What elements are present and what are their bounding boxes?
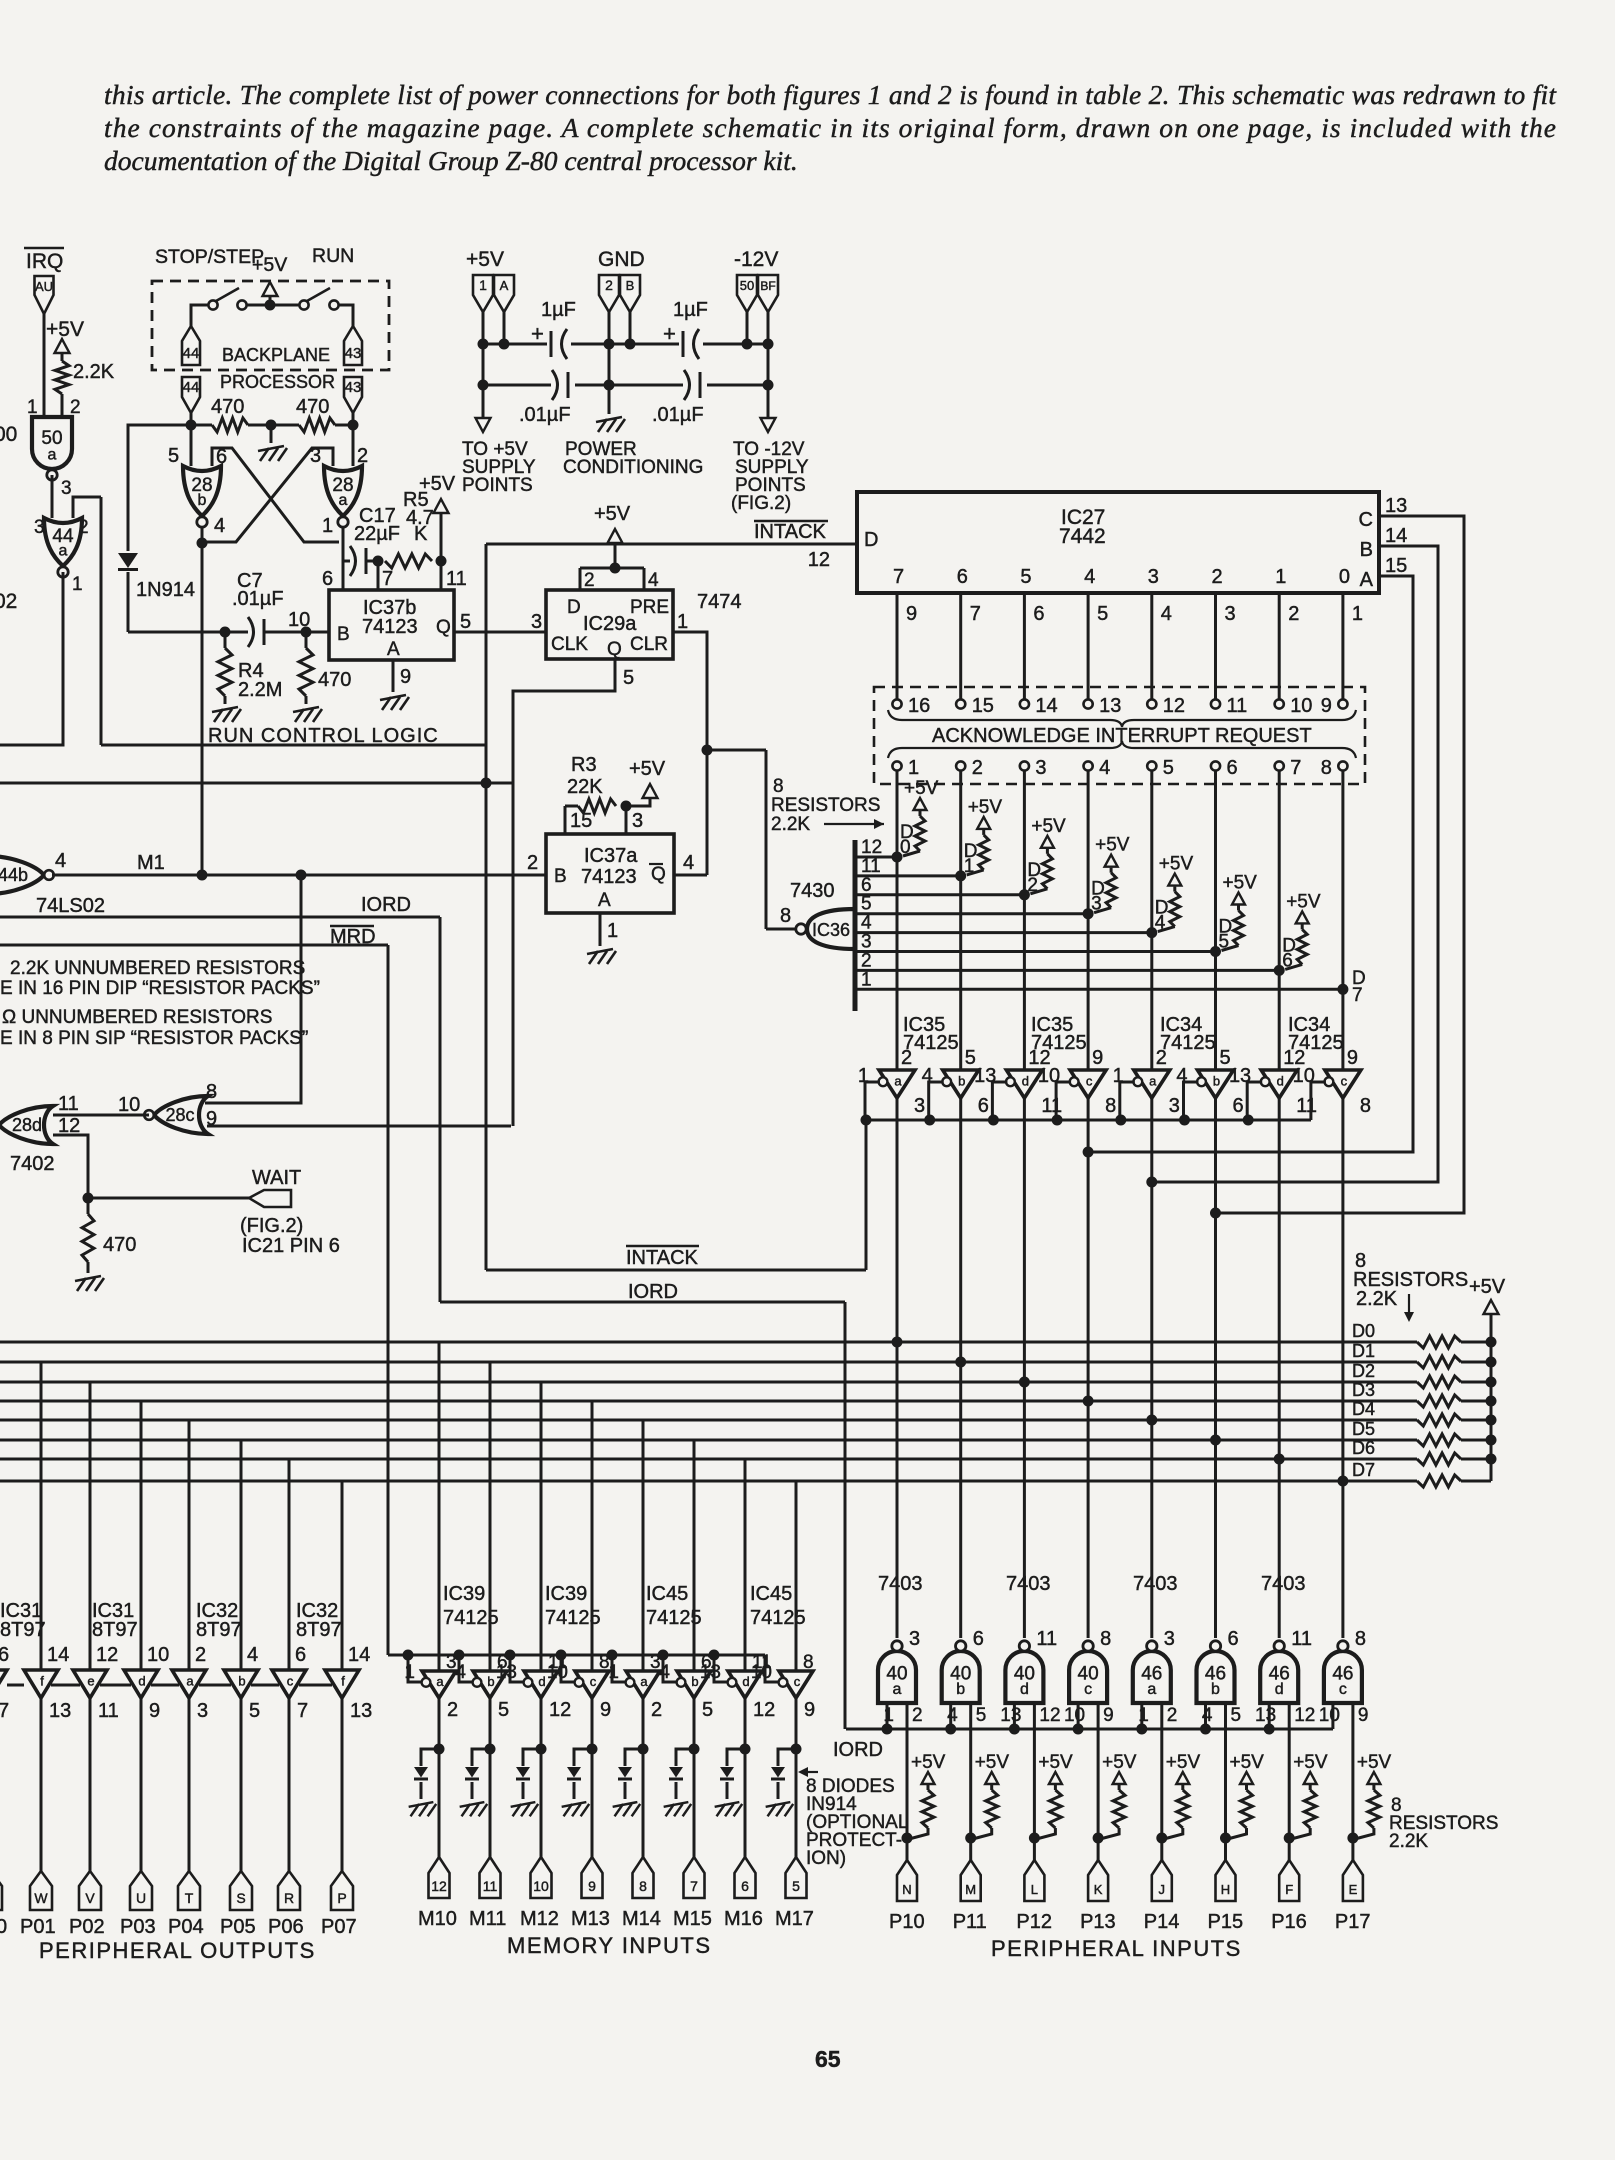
MRD top run <box>0 944 388 947</box>
svg-text:7430: 7430 <box>790 880 835 902</box>
svg-text:INTACK: INTACK <box>626 1247 699 1269</box>
svg-text:3: 3 <box>1148 566 1159 588</box>
svg-text:a: a <box>186 1673 194 1688</box>
svg-text:.01µF: .01µF <box>232 588 284 610</box>
svg-text:9: 9 <box>588 1878 596 1894</box>
junction diode M17 <box>791 1744 802 1755</box>
svg-text:+5V: +5V <box>975 1752 1010 1773</box>
connector WAIT <box>249 1190 291 1207</box>
diode to ground M13 <box>573 1782 576 1799</box>
junction memory enable 4 <box>607 1650 618 1661</box>
svg-text:470: 470 <box>103 1234 136 1256</box>
svg-text:2: 2 <box>912 1705 923 1726</box>
svg-text:RESISTORS: RESISTORS <box>771 795 880 816</box>
svg-text:44: 44 <box>183 345 200 362</box>
svg-text:8: 8 <box>1321 757 1332 779</box>
wire resistor to 50a pin2 <box>61 394 64 417</box>
pullup bend P13 <box>1100 1828 1119 1839</box>
junction enable rail 4 <box>1052 1115 1063 1126</box>
IORD horizontal run <box>440 1301 845 1304</box>
svg-text:8T97: 8T97 <box>296 1619 342 1641</box>
junction enable rail 7 <box>1243 1115 1254 1126</box>
ack request circle 5 <box>1147 761 1156 770</box>
wire +5V to R5 node <box>440 512 443 561</box>
power bus lower c <box>707 384 768 387</box>
svg-text:D: D <box>864 529 878 551</box>
diode 1N914 M17 <box>771 1767 785 1779</box>
gate 28d (7402 NOR) <box>0 1106 53 1144</box>
wire P02 buffer to plug <box>89 1698 92 1871</box>
data bus row D6 <box>0 1458 1417 1461</box>
svg-text:K: K <box>414 523 428 545</box>
junction IORD rail gate 4 <box>1073 1724 1084 1735</box>
IC36 input stub pin 6 <box>855 893 1024 896</box>
buffer 8T97 cut at left edge <box>0 1670 7 1698</box>
svg-text:6: 6 <box>1227 757 1238 779</box>
junction IORD rail gate 7 <box>1264 1724 1275 1735</box>
connector A (+5V) <box>494 275 514 312</box>
data bus row D4 <box>0 1419 1417 1422</box>
gate 46c (7403 NAND) <box>1324 1641 1362 1703</box>
resistor 2.2K bus D0 <box>1417 1336 1461 1348</box>
svg-text:a: a <box>1149 1073 1157 1088</box>
switch RUN contact right <box>329 300 338 309</box>
svg-text:74123: 74123 <box>581 866 637 888</box>
svg-text:2: 2 <box>1167 1705 1178 1726</box>
svg-text:12: 12 <box>861 837 882 858</box>
gate IC36 7430 body <box>807 909 855 949</box>
svg-text:2: 2 <box>1212 566 1223 588</box>
dashed interrupt connector box <box>874 687 1365 784</box>
wire +5V arrow to resistor <box>61 353 64 361</box>
svg-text:9: 9 <box>1347 1047 1358 1069</box>
svg-text:14: 14 <box>1385 525 1407 547</box>
resistor 470 (left) <box>212 418 248 432</box>
connector BF (-12V) <box>758 275 778 312</box>
resistor 2.2K P13 <box>1113 1790 1125 1828</box>
junction enable rail 5 <box>1115 1115 1126 1126</box>
svg-text:d: d <box>1022 1073 1029 1088</box>
svg-text:MEMORY INPUTS: MEMORY INPUTS <box>507 1933 712 1958</box>
connector J (P14) <box>1152 1860 1172 1901</box>
connector U (P03) <box>130 1871 152 1910</box>
svg-text:PROCESSOR: PROCESSOR <box>220 372 335 392</box>
svg-text:470: 470 <box>211 396 244 418</box>
+5V arrow P15 <box>1240 1772 1253 1784</box>
svg-text:4: 4 <box>922 1065 933 1087</box>
svg-text:13: 13 <box>1385 495 1407 517</box>
wire IC29a Q out <box>513 659 615 1126</box>
wire D5 resistor to arrow <box>1237 906 1240 911</box>
enable bend buffer 4 <box>1056 1082 1071 1120</box>
wire 470B top <box>305 632 308 648</box>
IORD drop to 7403 rail <box>844 1302 847 1729</box>
diode branch M10 <box>421 1749 439 1766</box>
column M14 from bus <box>642 1420 645 1671</box>
bus D0 to +5V rail <box>1461 1341 1491 1344</box>
svg-text:-12V: -12V <box>734 248 778 271</box>
svg-text:S: S <box>236 1890 245 1906</box>
svg-text:+5V: +5V <box>46 318 84 341</box>
wire node to diode branch <box>128 425 191 551</box>
svg-text:Q: Q <box>436 617 451 638</box>
svg-text:10: 10 <box>147 1644 169 1666</box>
wire 44a pin2 jog <box>73 497 101 518</box>
resistor 2.2K bus D3 <box>1417 1395 1461 1407</box>
7403 pin1 stub to IORD rail <box>886 1703 889 1729</box>
IC27 output 6 wire <box>959 593 962 700</box>
svg-text:P14: P14 <box>1144 1911 1180 1933</box>
svg-text:6: 6 <box>0 1644 9 1666</box>
svg-text:+5V: +5V <box>466 248 504 271</box>
buffer 8T97 d (P03) <box>124 1670 158 1698</box>
memory enable rail (MRD) <box>388 1654 765 1657</box>
svg-text:8: 8 <box>639 1878 647 1894</box>
connector R (P06) <box>278 1871 300 1910</box>
arrow to resistor pack <box>824 823 884 825</box>
junction +5V rail D0 <box>1486 1337 1497 1348</box>
column D2 from ack circle through buffer <box>1023 770 1026 1070</box>
svg-text:CLR: CLR <box>630 634 668 655</box>
enable bend buffer 6 <box>1184 1082 1199 1120</box>
connector 50 (-12V) <box>737 275 757 312</box>
diode branch M14 <box>625 1749 643 1766</box>
svg-text:4: 4 <box>683 852 694 874</box>
peripheral input column P13 <box>1097 1703 1100 1860</box>
wire 28c pin8 to M1 riser <box>205 875 301 1103</box>
svg-text:10: 10 <box>288 609 310 631</box>
svg-text:1: 1 <box>322 515 333 537</box>
svg-text:b: b <box>487 1674 494 1689</box>
ground (M17 diode) <box>766 1802 794 1816</box>
gate 40d (7403 NAND) <box>1005 1641 1043 1703</box>
svg-text:+5V: +5V <box>1166 1752 1201 1773</box>
wire IC36 out <box>766 928 796 931</box>
svg-text:43: 43 <box>345 345 362 362</box>
peripheral input column P14 <box>1160 1703 1163 1860</box>
svg-text:44b: 44b <box>0 865 28 885</box>
column D1 to 7403 gate <box>959 1362 962 1638</box>
svg-text:D2: D2 <box>1352 1361 1375 1381</box>
svg-text:D0: D0 <box>1352 1321 1375 1341</box>
junction diode M10 <box>434 1744 445 1755</box>
ground (IC37a A) <box>587 949 616 964</box>
svg-text:11: 11 <box>861 856 881 877</box>
junction bus1 2 <box>604 339 615 350</box>
column P02 from bus <box>89 1382 92 1670</box>
junction D6 pulldown node <box>1274 965 1285 976</box>
svg-text:P11: P11 <box>953 1911 987 1933</box>
svg-text:2: 2 <box>447 1699 458 1721</box>
bus D6 to +5V rail <box>1461 1458 1491 1461</box>
junction D4 bus <box>1146 1415 1157 1426</box>
svg-text:e: e <box>87 1673 94 1688</box>
connector H (P15) <box>1216 1860 1236 1901</box>
ground (M12 diode) <box>511 1802 539 1816</box>
svg-text:2.2K: 2.2K <box>73 361 115 383</box>
svg-text:2: 2 <box>651 1699 662 1721</box>
svg-text:+5V: +5V <box>1159 854 1194 875</box>
resistor 470 (right) <box>299 418 335 432</box>
data bus row D1 <box>0 1361 1417 1364</box>
svg-text:IORD: IORD <box>361 894 411 916</box>
junction D4 pulldown node <box>1146 927 1157 938</box>
svg-text:POINTS: POINTS <box>462 475 533 496</box>
wire M17 buffer to plug <box>795 1698 798 1857</box>
junction pin11 node <box>436 556 447 567</box>
+5V arrow D5 <box>1232 893 1245 905</box>
+5V arrow P16 <box>1304 1772 1317 1784</box>
svg-text:2: 2 <box>605 277 613 293</box>
junction CLR/IC36 link <box>702 745 713 756</box>
svg-text:5: 5 <box>1219 932 1230 953</box>
IC37a one-shot box <box>546 834 674 913</box>
svg-text:7: 7 <box>1352 985 1363 1006</box>
junction pullup P14 <box>1156 1833 1167 1844</box>
7403 pin4 stub to IORD rail <box>949 1703 952 1729</box>
svg-text:A: A <box>598 890 611 911</box>
junction center ground <box>266 420 277 431</box>
MRD drop to memory enable rail <box>387 945 390 1655</box>
svg-text:1: 1 <box>1113 1065 1124 1087</box>
IC36 input stub pin 1 <box>855 988 1343 991</box>
wire 50a out to 44a pin3 <box>51 475 54 518</box>
gate 44a (7402 NOR) <box>44 518 82 577</box>
connector 10 (M12) <box>531 1857 552 1898</box>
junction 28b-out on M1 line <box>197 870 208 881</box>
wire R4 bottom <box>224 696 227 704</box>
junction M1 riser <box>296 870 307 881</box>
diode branch M17 <box>778 1749 796 1766</box>
junction D5 bus <box>1210 1435 1221 1446</box>
svg-text:3: 3 <box>1225 603 1236 625</box>
wire run-control line to INTACK riser <box>101 744 486 747</box>
+5V arrow P10 <box>922 1772 935 1784</box>
svg-text:10: 10 <box>1064 1705 1085 1726</box>
pullup bend P10 <box>909 1828 928 1839</box>
svg-text:12: 12 <box>549 1699 571 1721</box>
connector 12 (M10) <box>429 1857 450 1898</box>
INTACK riser x486 <box>485 544 488 1270</box>
svg-text:22µF: 22µF <box>354 523 400 545</box>
svg-text:4: 4 <box>55 850 66 872</box>
svg-text:74123: 74123 <box>362 616 418 638</box>
svg-text:13: 13 <box>350 1700 372 1722</box>
buffer 8T97 e (P02) <box>73 1670 107 1698</box>
svg-text:470: 470 <box>318 669 351 691</box>
svg-text:P17: P17 <box>1335 1911 1371 1933</box>
wire diode to C7 line <box>127 572 130 632</box>
junction diode M13 <box>587 1744 598 1755</box>
stub pin15 IC37a <box>564 806 567 834</box>
junction +5V rail D5 <box>1486 1435 1497 1446</box>
svg-text:9: 9 <box>1103 1705 1114 1726</box>
arrow to +5V supply <box>476 418 491 432</box>
8T97 mid rail segment 1 <box>51 1684 80 1687</box>
svg-text:7: 7 <box>382 568 393 590</box>
wire 28b pin6 cross to 28a output <box>212 448 339 542</box>
ack request circle 8 <box>1338 761 1347 770</box>
resistor 2.2K P12 <box>1049 1790 1061 1828</box>
resistor 2.2K P14 <box>1177 1790 1189 1828</box>
svg-text:Q: Q <box>651 864 666 885</box>
svg-text:AU: AU <box>35 279 53 294</box>
bracket pin2-pin4 <box>580 567 644 570</box>
wire D2 resistor to arrow <box>1046 849 1049 854</box>
resistor R4 2.2M <box>218 648 232 696</box>
svg-text:14: 14 <box>1035 695 1057 717</box>
svg-text:10: 10 <box>533 1878 549 1894</box>
svg-text:+: + <box>663 321 676 346</box>
peripheral input column P16 <box>1288 1703 1291 1860</box>
arrow to -12V supply <box>761 418 776 432</box>
svg-text:8: 8 <box>780 905 791 927</box>
mid rail stub left <box>7 1684 24 1687</box>
column P05 from bus <box>240 1440 243 1670</box>
svg-text:7: 7 <box>297 1700 308 1722</box>
svg-text:+5V: +5V <box>1293 1752 1328 1773</box>
svg-text:PERIPHERAL INPUTS: PERIPHERAL INPUTS <box>991 1936 1242 1961</box>
svg-text:13: 13 <box>1000 1705 1021 1726</box>
wire P04 buffer to plug <box>188 1698 191 1871</box>
data bus row D2 <box>0 1381 1417 1384</box>
wire vertical x101 to run line <box>100 497 103 745</box>
svg-text:6: 6 <box>295 1644 306 1666</box>
svg-text:D4: D4 <box>1352 1399 1375 1419</box>
peripheral input column P11 <box>969 1703 972 1860</box>
junction memory enable 6 <box>709 1650 720 1661</box>
wire 28a pin3 cross to 28b output <box>207 448 333 542</box>
diode branch M13 <box>574 1749 592 1766</box>
junction pullup P13 <box>1093 1833 1104 1844</box>
buffer 8T97 b (P05) <box>224 1670 258 1698</box>
column M13 from bus <box>591 1401 594 1671</box>
peripheral input column P12 <box>1033 1703 1036 1860</box>
INTACK riser to enable rail <box>865 1120 868 1270</box>
enable rail (INTACK) <box>866 1119 1311 1122</box>
svg-text:4: 4 <box>247 1644 258 1666</box>
svg-text:A: A <box>1360 569 1374 591</box>
+5V arrow (bus pullups) <box>1484 1300 1499 1314</box>
wire resistor to ground (WAIT) <box>87 1262 90 1273</box>
column M16 from bus <box>744 1459 747 1671</box>
ack connector circle 16 <box>892 699 901 708</box>
svg-text:8: 8 <box>206 1081 217 1103</box>
svg-text:c: c <box>287 1673 294 1688</box>
svg-text:CLK: CLK <box>551 634 588 655</box>
resistor 2.2K D0 <box>915 816 925 851</box>
7403 pin4 stub to IORD rail <box>1204 1703 1207 1729</box>
svg-text:P16: P16 <box>1271 1911 1307 1933</box>
svg-text:9: 9 <box>600 1699 611 1721</box>
svg-text:A: A <box>500 278 509 293</box>
wire M14 buffer to plug <box>642 1698 645 1857</box>
svg-text:(FIG.2): (FIG.2) <box>240 1215 303 1237</box>
ack request circle 1 <box>892 761 901 770</box>
svg-text:+: + <box>531 321 544 346</box>
diode to ground M15 <box>675 1782 678 1799</box>
svg-text:1: 1 <box>1275 566 1286 588</box>
svg-text:1: 1 <box>677 611 688 633</box>
wire P05 buffer to plug <box>240 1698 243 1871</box>
IRQ overline <box>24 247 64 250</box>
svg-text:28d: 28d <box>12 1115 42 1135</box>
gate 40b (7403 NAND) <box>942 1641 980 1703</box>
wire D3 resistor to node <box>1094 908 1111 913</box>
svg-text:a: a <box>436 1674 444 1689</box>
wire plug1 down <box>482 312 485 344</box>
resistor 2.2K D6 <box>1297 929 1307 964</box>
pullup arrow stub P17 <box>1372 1785 1375 1790</box>
buffer IC39/IC45 d (M12) <box>524 1671 558 1698</box>
wire plugA down <box>503 312 506 344</box>
gate 28c (7402 NOR) <box>144 1096 208 1134</box>
svg-text:P04: P04 <box>168 1916 204 1938</box>
junction bus1 50 <box>742 339 753 350</box>
INTACK horizontal run <box>486 1269 866 1272</box>
svg-text:2: 2 <box>584 570 595 591</box>
svg-text:P15: P15 <box>1208 1911 1244 1933</box>
svg-text:5: 5 <box>792 1878 800 1894</box>
junction diode M14 <box>638 1744 649 1755</box>
svg-text:2: 2 <box>901 1047 912 1069</box>
column M17 from bus <box>795 1481 798 1671</box>
resistor 2.2K D1 <box>979 835 989 870</box>
svg-text:2: 2 <box>861 950 872 971</box>
ground (M11 diode) <box>460 1802 488 1816</box>
diode to ground M11 <box>471 1782 474 1799</box>
resistor 2.2K D5 <box>1234 911 1244 946</box>
bus D3 to +5V rail <box>1461 1400 1491 1403</box>
wire 44a output down-left off page <box>0 572 63 745</box>
svg-text:13: 13 <box>496 1662 517 1683</box>
capacitor 1uF (left) <box>551 329 567 359</box>
svg-text:3: 3 <box>632 810 643 832</box>
svg-text:1: 1 <box>908 757 919 779</box>
svg-text:8: 8 <box>1100 1628 1111 1650</box>
ack request circle 7 <box>1275 761 1284 770</box>
buffer IC39/IC45 b (M11) <box>473 1671 507 1698</box>
svg-text:10: 10 <box>547 1662 568 1683</box>
svg-text:U: U <box>136 1890 146 1906</box>
diode 1N914 M15 <box>669 1767 683 1779</box>
svg-text:4: 4 <box>1161 603 1172 625</box>
ack connector circle 10 <box>1275 699 1284 708</box>
diode to ground M16 <box>726 1782 729 1799</box>
svg-text:2: 2 <box>195 1644 206 1666</box>
junction D3 pulldown node <box>1083 908 1094 919</box>
+5V arrow D2 <box>1041 836 1054 848</box>
svg-text:a: a <box>1147 1681 1156 1698</box>
svg-text:+5V: +5V <box>1230 1752 1265 1773</box>
svg-text:+5V: +5V <box>1223 873 1258 894</box>
junction bus2 mid <box>604 380 615 391</box>
IC27 output 4 wire <box>1087 593 1090 700</box>
column D4 to 7403 gate <box>1150 1420 1153 1638</box>
junction pullup P10 <box>902 1833 913 1844</box>
svg-text:7: 7 <box>970 603 981 625</box>
8T97 mid rail segment 4 <box>199 1684 231 1687</box>
svg-text:BF: BF <box>760 279 775 293</box>
junction +5V rail D6 <box>1486 1454 1497 1465</box>
diode branch M12 <box>523 1749 541 1766</box>
svg-text:J: J <box>1159 1882 1166 1897</box>
ack request circle 4 <box>1084 761 1093 770</box>
IC36 input stub pin 2 <box>855 969 1279 972</box>
svg-text:c: c <box>1084 1681 1092 1698</box>
svg-text:4: 4 <box>1202 1705 1213 1726</box>
svg-text:2.2K UNNUMBERED RESISTORS: 2.2K UNNUMBERED RESISTORS <box>10 958 305 979</box>
